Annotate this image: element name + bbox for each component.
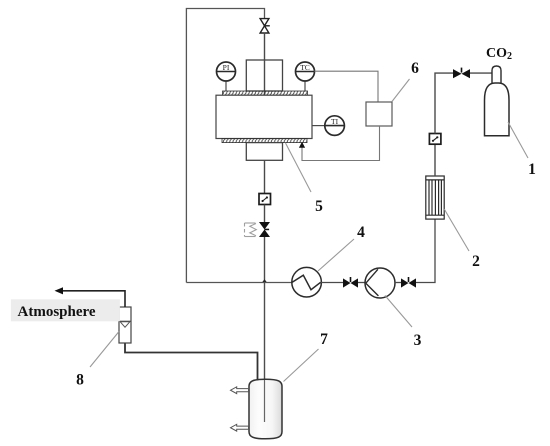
reactor body (vessel 5) <box>216 95 312 138</box>
controller box 6 <box>366 102 392 126</box>
gauge PI <box>217 62 236 81</box>
wire dip tube inside vessel 7 <box>264 380 266 422</box>
pointer line to 4 <box>318 239 354 271</box>
wire rotameter to atmosphere arrow <box>58 291 125 307</box>
wire junction down to collection vessel dip tube <box>264 283 266 423</box>
reactor bottom flange (hatched) <box>222 139 307 143</box>
pointer line to 3 <box>385 296 412 328</box>
gauge TI tap line <box>312 125 325 127</box>
arrowhead to atmosphere <box>55 287 64 294</box>
heat exchanger HX4 (circle with zigzag) <box>292 267 322 297</box>
gauge TI <box>325 116 345 136</box>
svg-text:8: 8 <box>76 372 84 389</box>
wire valve V4 to cooler riser <box>416 219 435 282</box>
valve V2 (back pressure valve, filled) <box>259 222 270 237</box>
svg-text:6: 6 <box>411 60 419 77</box>
wire reactor bottom outlet <box>264 160 266 193</box>
gauge PI stem <box>225 81 227 91</box>
filter F2 (square with diagonal) <box>429 134 441 145</box>
reactor top flange (hatched) <box>223 91 308 95</box>
CO2 cylinder (item 1) <box>485 66 510 136</box>
valve V4 (filled bowtie) <box>401 277 416 288</box>
pointer line to 6 <box>392 79 410 102</box>
rotameter (item 8) <box>119 307 131 343</box>
svg-text:TI: TI <box>331 117 339 126</box>
gauge TC <box>296 62 315 81</box>
wire filter F2 up and to cylinder valve <box>435 73 453 133</box>
svg-text:7: 7 <box>320 331 328 348</box>
cooler C2 (striped tube bundle) <box>426 176 444 219</box>
wire valve V2 down to junction <box>264 237 266 283</box>
valve V5 (cylinder valve, filled bowtie) <box>453 68 470 79</box>
wire filter F1 to back-pressure valve <box>264 205 266 223</box>
wire valve V1 to reactor top <box>264 32 266 95</box>
arrowhead into reactor bottom <box>299 142 305 148</box>
svg-text:3: 3 <box>414 332 422 349</box>
reactor top cap <box>246 60 282 91</box>
wire valve V3 to pump <box>358 282 365 284</box>
svg-text:PI: PI <box>223 63 230 72</box>
pointer line to 2 <box>444 209 469 251</box>
pointer line to 1 <box>508 122 528 158</box>
gauge TC stem <box>304 81 306 91</box>
svg-text:TC: TC <box>300 63 310 72</box>
reactor bottom cap <box>246 143 282 161</box>
wire cooler to filter F2 <box>434 144 436 176</box>
valve V3 (filled bowtie) <box>343 277 358 288</box>
wire HX4 to valve V3 <box>321 282 343 284</box>
wire pipe through top cap <box>264 60 266 91</box>
Atmosphere label box <box>11 299 120 321</box>
nozzle arrow bottom of vessel 7 <box>231 424 249 431</box>
wire main horizontal run <box>186 282 292 284</box>
svg-text:4: 4 <box>357 224 365 241</box>
filter F1 (square with diagonal) <box>259 194 271 205</box>
wire vent line vessel 7 to rotameter <box>125 343 258 381</box>
wire valve V5 to cylinder neck <box>470 72 492 74</box>
pointer line to 8 <box>90 332 119 368</box>
pump P3 (circle with chords) <box>365 268 395 298</box>
nozzle arrow top of vessel 7 <box>231 387 249 394</box>
vessel 7 (collection vessel) <box>249 379 282 439</box>
wire top loop (reactor outlet recycle to pump suction line) <box>186 9 264 283</box>
wire pump to valve V4 <box>395 282 401 284</box>
back-pressure regulator spring symbol <box>245 223 257 237</box>
svg-text:5: 5 <box>315 198 323 215</box>
svg-text:Atmosphere: Atmosphere <box>18 304 96 320</box>
svg-text:2: 2 <box>472 253 480 270</box>
valve V1 (vertical outline valve above reactor) <box>260 19 270 33</box>
signal line TC to controller box 6 <box>315 71 379 102</box>
pointer line to 5 <box>286 143 312 192</box>
signal line box 6 to reactor heater <box>302 126 380 161</box>
pointer line to 7 <box>284 349 319 382</box>
node junction J1 <box>262 279 267 282</box>
svg-text:1: 1 <box>528 161 536 178</box>
